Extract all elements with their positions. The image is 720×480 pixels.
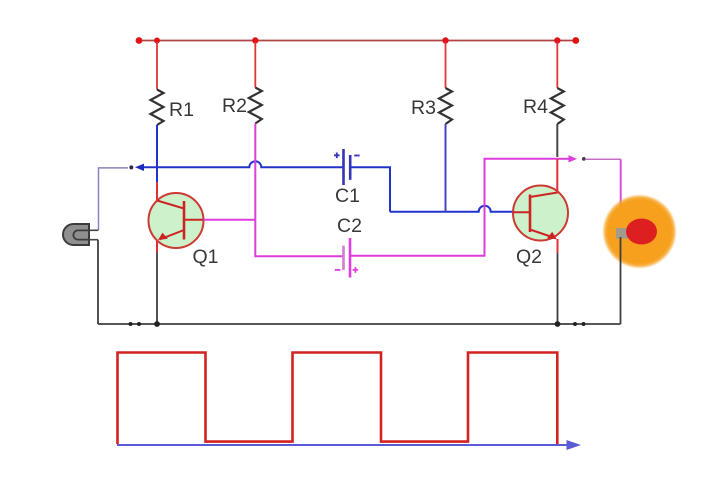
wire: R4 bottom dark (556, 124, 558, 157)
LED D2 lit die (626, 219, 657, 245)
wire: Q2 collector red (556, 159, 558, 194)
node: small hook dot right (582, 157, 586, 161)
wire: LED D1 to ground rail (97, 240, 99, 324)
wire: R1 bottom blue (156, 125, 158, 183)
node: rail junction R3 (442, 37, 448, 43)
svg-text:R4: R4 (523, 96, 548, 118)
wire: R2 bottom magenta vertical (254, 124, 256, 257)
waveform axis arrowhead (567, 440, 582, 450)
ground rail (98, 323, 621, 325)
wire: base net horizontal with hop over R2 wire and C1 (141, 161, 344, 167)
waveform axis (117, 444, 570, 446)
resistor R2 (249, 88, 262, 124)
resistor R4 (551, 88, 564, 124)
polarity + of C2 (353, 267, 359, 273)
capacitor C2 (344, 238, 351, 278)
wire: Q1 emitter to ground rail (156, 253, 158, 325)
node: rail left end (136, 37, 143, 44)
LED D2 lead notch (616, 228, 629, 239)
svg-text:R2: R2 (222, 95, 247, 117)
svg-text:C1: C1 (335, 185, 360, 207)
LED D2 (right, lit) glow (602, 194, 677, 269)
node: rail junction R4 (554, 37, 560, 43)
polarity - of C1 (354, 155, 359, 157)
transistor Q2 (513, 186, 568, 241)
arrow: current arrow left (135, 164, 144, 171)
node: small hook dot (129, 165, 133, 169)
LED D1 (left, off) (63, 224, 89, 245)
resistor R1 (151, 90, 164, 126)
polarity - of C2 (335, 269, 341, 271)
svg-text:Q2: Q2 (516, 246, 542, 268)
wire: R3 bottom blue (445, 124, 447, 212)
wire: thin lavender to left corner (99, 168, 129, 230)
wire: magenta to C2 left (254, 255, 343, 257)
polarity + of C1 (334, 153, 340, 159)
svg-text:Q1: Q1 (193, 246, 219, 268)
power rail (139, 40, 576, 42)
node: rail junction R1 (154, 38, 160, 44)
svg-text:R1: R1 (169, 99, 194, 121)
wire: LED D1 bottom lead (89, 239, 98, 241)
resistor R3 (439, 88, 452, 124)
wire: Q2 base horizontal with hop (390, 206, 513, 212)
node: rail dots left pair (129, 322, 133, 326)
wire: rail to R2 (254, 42, 256, 88)
svg-text:R3: R3 (411, 97, 436, 119)
wire: Q2 emitter red (557, 239, 559, 253)
node: Q1 emitter junction (154, 321, 160, 327)
wire: Q1 base magenta (203, 219, 255, 221)
capacitor C1 (344, 149, 351, 185)
waveform square wave (118, 353, 558, 445)
wire: Q1 emitter red (156, 240, 158, 253)
wire: magenta junction to right arrow (557, 158, 570, 160)
wire: rail to R1 (156, 42, 158, 90)
node: rail dots right pair (573, 322, 577, 326)
wire: C2 right magenta loop up (350, 159, 557, 256)
wire: LED D1 top lead (89, 229, 99, 231)
arrow: current arrow right (569, 155, 578, 162)
wire: rail to R4 (556, 42, 558, 88)
wire: LED D2 to ground rail (620, 237, 622, 324)
wire: magenta to right corner and down to LED2 (586, 158, 621, 160)
node: Q2 emitter junction (555, 321, 561, 327)
wire: Q2 emitter to ground rail (557, 253, 559, 324)
wire: C1 right to corner (350, 167, 390, 211)
wire: Q1 collector red (156, 182, 158, 201)
transistor Q1 (149, 193, 204, 248)
node: rail right end (572, 37, 579, 44)
node: rail junction R2 (252, 37, 258, 43)
wire: rail to R3 (445, 42, 447, 88)
svg-text:C2: C2 (337, 215, 362, 237)
